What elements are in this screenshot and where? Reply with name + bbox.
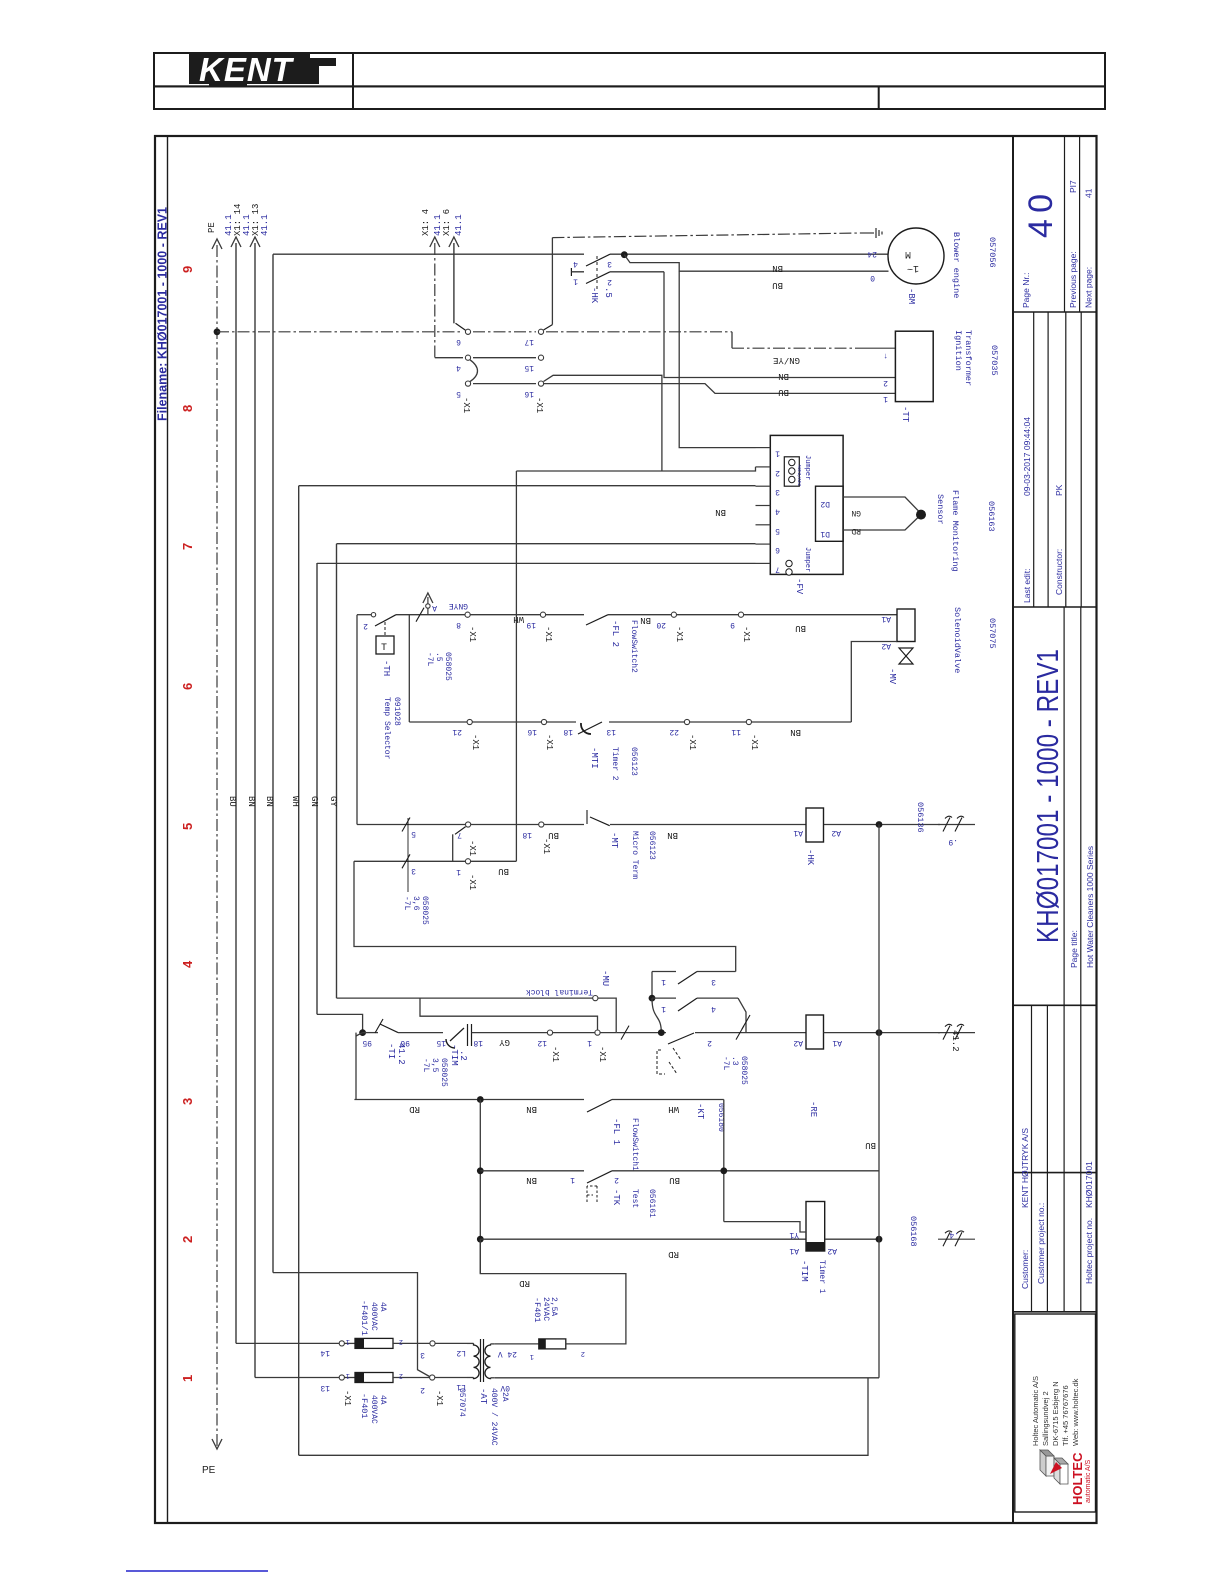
transformer -AT (467, 1342, 474, 1344)
svg-text:0: 0 (870, 273, 875, 282)
svg-text:4A: 4A (378, 1395, 387, 1405)
svg-text:057056: 057056 (987, 237, 997, 268)
svg-text:PE: PE (202, 1465, 216, 1476)
RE rung continues (616, 1032, 666, 1034)
sensor wires and node (843, 497, 918, 511)
BU vertical right (878, 825, 880, 1378)
svg-text:A: A (432, 603, 437, 612)
connector pin 17 (538, 329, 543, 334)
svg-text:D1: D1 (820, 529, 830, 538)
svg-text:1: 1 (661, 977, 666, 986)
svg-text:0V: 0V (500, 1383, 510, 1392)
svg-text:-X1: -X1 (467, 626, 477, 642)
svg-text:7: 7 (180, 543, 195, 550)
header frame (154, 53, 1105, 86)
terminal X1:14 (339, 1341, 344, 1346)
svg-text:-X1: -X1 (461, 397, 471, 413)
Holtec 3D icon (1040, 1450, 1068, 1484)
TH rung wire (357, 614, 372, 616)
WH rail (298, 486, 300, 1456)
svg-text:2: 2 (180, 1236, 195, 1243)
BN corner to fuse F401 (255, 1377, 339, 1379)
svg-text:3: 3 (711, 977, 716, 986)
svg-text:6: 6 (180, 683, 195, 690)
svg-text:1: 1 (570, 1175, 575, 1184)
title block (1012, 136, 1014, 1523)
svg-text:Page title:: Page title: (1069, 930, 1079, 968)
blower engine motor -BM (888, 228, 944, 284)
svg-text:BN: BN (640, 615, 651, 625)
svg-text:Test: Test (630, 1189, 639, 1208)
svg-text:4A: 4A (378, 1302, 387, 1312)
svg-text:9: 9 (180, 266, 195, 273)
svg-text:Previous page:: Previous page: (1068, 251, 1078, 308)
fuse -F401/1 (355, 1338, 393, 1348)
svg-text:M: M (905, 248, 911, 259)
right drop x=723.8 (723, 1100, 725, 1222)
svg-text:24V/240v: 24V/240v (797, 464, 803, 486)
svg-text:WH: WH (668, 1104, 679, 1114)
svg-text:1: 1 (775, 449, 780, 458)
svg-text:-X1: -X1 (550, 1046, 560, 1062)
svg-text:DK-6715 Esbjerg N: DK-6715 Esbjerg N (1051, 1381, 1060, 1446)
svg-text:BN: BN (526, 1175, 537, 1185)
svg-text:.4: .4 (949, 1230, 959, 1239)
svg-text:-F401/1: -F401/1 (359, 1300, 369, 1336)
timer contact -MTI (578, 722, 602, 734)
svg-text:4: 4 (711, 1004, 716, 1013)
svg-text:2: 2 (399, 1337, 403, 1345)
BU rail (235, 243, 237, 1343)
svg-text:-MT: -MT (609, 832, 619, 849)
svg-text:11: 11 (731, 727, 741, 736)
svg-text:KHØ017001 - 1000 - REV1: KHØ017001 - 1000 - REV1 (1030, 649, 1065, 943)
svg-text:056136: 056136 (915, 802, 925, 833)
svg-text:056123: 056123 (647, 831, 656, 860)
svg-text:3: 3 (420, 1350, 425, 1359)
HK 1-2 drop to TT pin 2 (BN) (664, 272, 895, 378)
svg-text:A1: A1 (832, 1038, 842, 1047)
svg-text:8: 8 (180, 405, 195, 412)
svg-text:-FL 1: -FL 1 (611, 1118, 621, 1145)
svg-text:Page Nr.:: Page Nr.: (1021, 273, 1031, 308)
connector pin 6 (465, 329, 470, 334)
svg-text:-BM: -BM (906, 288, 916, 304)
node PE junction (214, 328, 221, 335)
svg-text:-MV: -MV (887, 668, 897, 685)
main frame (155, 136, 1097, 1523)
svg-text:1: 1 (587, 1038, 592, 1047)
connector row pins 5-16 (473, 383, 536, 385)
svg-text:-MTI: -MTI (589, 747, 599, 769)
svg-text:-AT: -AT (478, 1388, 488, 1405)
BN rail (254, 243, 256, 1378)
terminal X1:9 (738, 612, 743, 617)
svg-text:057075: 057075 (987, 618, 997, 649)
svg-text:WH: WH (513, 614, 524, 624)
timer contact -TIM .2 (450, 1028, 464, 1041)
svg-text:-X1: -X1 (467, 840, 477, 856)
svg-text:Holtec project no.: Holtec project no. (1084, 1218, 1094, 1284)
svg-text:BU: BU (669, 1175, 680, 1185)
micro term -MT contact (586, 810, 588, 824)
svg-text:PK: PK (1054, 484, 1064, 496)
svg-text:-X1: -X1 (534, 397, 544, 413)
svg-text:-TH: -TH (381, 660, 391, 676)
svg-text:057074: 057074 (457, 1388, 466, 1417)
svg-text:GNYE: GNYE (449, 601, 468, 610)
svg-text:-FL 2: -FL 2 (610, 620, 620, 647)
svg-text:BN: BN (715, 507, 726, 517)
svg-text:BU: BU (498, 866, 509, 876)
svg-text:14: 14 (320, 1348, 330, 1357)
svg-text:24 V: 24 V (498, 1349, 517, 1358)
GN rail (316, 563, 318, 1014)
S-curve from node down to RE rung (652, 998, 661, 1032)
svg-text:5: 5 (456, 389, 461, 398)
riser to MV A2 (851, 642, 897, 723)
svg-text:2: 2 (581, 1349, 585, 1357)
svg-text:A2: A2 (793, 1038, 803, 1047)
wire rung y=254 from BN2 to blower 24 (273, 253, 584, 255)
PE distribution dash-dot y=331.8 with connector pins 6 / 17 (217, 331, 463, 333)
svg-text:2A: 2A (500, 1392, 509, 1402)
svg-text:41.2: 41.2 (396, 1043, 406, 1065)
svg-text:-X1: -X1 (467, 874, 477, 890)
svg-text:HOLTEC: HOLTEC (1070, 1452, 1085, 1505)
fuse -F401 (355, 1373, 393, 1383)
svg-text:A1: A1 (789, 1246, 799, 1255)
svg-text:1: 1 (456, 867, 461, 876)
svg-text:2: 2 (614, 1175, 619, 1184)
svg-text:BU: BU (865, 1140, 876, 1150)
svg-text:BU: BU (548, 830, 559, 840)
flow switch 2 contact (586, 615, 608, 625)
svg-text:5: 5 (411, 829, 416, 838)
svg-text:BN: BN (246, 796, 256, 807)
relay coil -RE (806, 1015, 824, 1049)
svg-text:RD: RD (519, 1278, 530, 1288)
jumper block top (784, 457, 799, 486)
svg-text:5: 5 (180, 823, 195, 830)
switch -HK contact 3-4 (586, 254, 610, 266)
svg-text:058025: 058025 (739, 1056, 748, 1085)
terminal X1:13 (339, 1375, 344, 1380)
svg-text:SolenoidValve: SolenoidValve (952, 607, 962, 673)
svg-text:Filename: KHØ017001 - 1000 - R: Filename: KHØ017001 - 1000 - REV1 (156, 207, 170, 421)
svg-text:-MU: -MU (600, 970, 610, 986)
svg-text:FlowSwitch1: FlowSwitch1 (630, 1118, 639, 1171)
svg-text:Web: www.holtec.dk: Web: www.holtec.dk (1071, 1378, 1080, 1446)
terminal X1:16 (541, 719, 546, 724)
svg-text:BN: BN (772, 263, 783, 273)
svg-text:PE: PE (207, 222, 217, 233)
svg-text:-X1: -X1 (749, 734, 759, 750)
svg-text:058025: 058025 (439, 1058, 448, 1087)
contact -TI 95/96 (363, 1032, 378, 1034)
svg-text:BU: BU (795, 623, 806, 633)
timer coil -TIM (806, 1202, 825, 1252)
svg-text:KENT HØJTRYK A/S: KENT HØJTRYK A/S (1020, 1128, 1030, 1208)
svg-text:X1: 4: X1: 4 (421, 209, 431, 236)
svg-text:PI7: PI7 (1068, 180, 1078, 193)
svg-text:-FV: -FV (794, 578, 804, 595)
svg-text:.5: .5 (434, 652, 443, 662)
svg-text:A1: A1 (881, 614, 891, 623)
svg-text:KHØ017001: KHØ017001 (1084, 1161, 1094, 1208)
svg-text:-X1: -X1 (470, 734, 480, 750)
svg-text:A1: A1 (793, 828, 803, 837)
svg-text:Customer:: Customer: (1020, 1250, 1030, 1289)
svg-text:BN: BN (778, 371, 789, 381)
svg-text:-7L: -7L (421, 1058, 430, 1073)
svg-text:-X1: -X1 (741, 626, 751, 642)
svg-text:20: 20 (656, 620, 666, 629)
svg-text:16: 16 (524, 389, 534, 398)
svg-text:-7L: -7L (721, 1056, 730, 1071)
terminal X1:3 (430, 1341, 435, 1346)
svg-text:058025: 058025 (420, 896, 429, 925)
svg-text:3,6: 3,6 (411, 896, 420, 911)
relay coil -HK (806, 808, 824, 842)
svg-text:-X1: -X1 (687, 734, 697, 750)
svg-text:T: T (381, 643, 387, 654)
svg-text:Ignition: Ignition (953, 330, 963, 371)
Y1 wire from TK rung (724, 1222, 806, 1232)
svg-text:KENT: KENT (199, 51, 295, 88)
svg-text:.3: .3 (730, 1056, 739, 1066)
svg-text:-7L: -7L (425, 652, 434, 667)
svg-text:-TT: -TT (900, 406, 910, 423)
svg-text:3: 3 (411, 866, 416, 875)
svg-text:2: 2 (707, 1038, 712, 1047)
svg-text:13: 13 (606, 727, 616, 736)
svg-text:1: 1 (883, 394, 888, 403)
svg-text:Jumper: Jumper (803, 455, 811, 480)
svg-text:4: 4 (180, 960, 195, 968)
contact 1-4 (649, 995, 656, 1002)
svg-text:091028: 091028 (392, 697, 401, 726)
svg-text:400VAC: 400VAC (369, 1395, 378, 1424)
svg-text:RD: RD (851, 526, 861, 535)
svg-text:056168: 056168 (908, 1216, 918, 1247)
svg-text:2: 2 (363, 621, 368, 630)
svg-text:-F401: -F401 (532, 1297, 542, 1323)
svg-text:Last edit:: Last edit: (1022, 569, 1032, 604)
svg-text:2: 2 (420, 1385, 425, 1394)
svg-text:16: 16 (527, 727, 537, 736)
wire to blower 0 (624, 255, 888, 272)
A GNVE stub with arrow (427, 597, 429, 615)
Holtec logo box (1015, 1314, 1096, 1512)
svg-text:-HK: -HK (589, 287, 599, 304)
svg-text:-X1: -X1 (597, 1046, 607, 1062)
terminal X1:21 (467, 719, 472, 724)
terminal X1:12 (547, 1030, 552, 1035)
svg-text:7: 7 (775, 564, 780, 573)
svg-text:1: 1 (346, 1337, 350, 1345)
svg-text:Customer project no.:: Customer project no.: (1036, 1203, 1046, 1284)
svg-text:22: 22 (669, 727, 679, 736)
svg-text:Y1: Y1 (789, 1230, 799, 1239)
svg-text:Tlf. +45 76767676: Tlf. +45 76767676 (1061, 1385, 1070, 1446)
svg-text:400VAC: 400VAC (369, 1302, 378, 1331)
svg-text:19: 19 (526, 620, 536, 629)
svg-text:8: 8 (456, 620, 461, 629)
terminal X1:11 (746, 719, 751, 724)
svg-text:RD: RD (409, 1104, 420, 1114)
KENT logo (189, 51, 336, 88)
svg-text:GY: GY (328, 796, 338, 807)
svg-text:13: 13 (320, 1383, 330, 1392)
ground pin at blower (860, 232, 874, 234)
terminal X1:1 (595, 1030, 600, 1035)
svg-text:-TIM: -TIM (799, 1260, 809, 1282)
svg-text:41: 41 (1084, 188, 1094, 198)
B path down and over to contact 3 (354, 861, 736, 971)
svg-text:L2: L2 (456, 1348, 466, 1357)
svg-text:1: 1 (346, 1371, 350, 1379)
riser from pin17 up to HK row (551, 238, 553, 325)
FV pin wires: pin2 from x516 line, pin3 WH, pin6 GY, pin7 GN (516, 467, 755, 471)
contact -KT (695, 1032, 806, 1034)
svg-text:Hot Water Cleaners 1000 Series: Hot Water Cleaners 1000 Series (1085, 846, 1095, 968)
svg-text:Transformer: Transformer (963, 330, 973, 386)
svg-text:1: 1 (530, 1352, 534, 1360)
terminal X1:19 (540, 612, 545, 617)
svg-text:-HK: -HK (805, 849, 815, 866)
wire pin16 to TT pin 2 (BN) (544, 375, 662, 471)
svg-text:2: 2 (399, 1371, 403, 1379)
24V wire + fuse -F401 24VAC (495, 1343, 539, 1345)
svg-text:18: 18 (563, 727, 573, 736)
svg-text:6: 6 (775, 545, 780, 554)
jumper curve pin4 to pin5 (470, 360, 478, 382)
svg-text:2: 2 (883, 378, 888, 387)
svg-text:FlowSwitch2: FlowSwitch2 (629, 620, 638, 673)
svg-text:1: 1 (180, 1375, 195, 1382)
svg-text:1: 1 (661, 1004, 666, 1013)
svg-text:7: 7 (457, 830, 462, 839)
svg-text:BU: BU (772, 280, 783, 290)
svg-text:Holtec Automatic A/S: Holtec Automatic A/S (1031, 1376, 1040, 1446)
svg-text:.5: .5 (603, 287, 613, 298)
svg-text:-X1: -X1 (544, 734, 554, 750)
svg-text:D2: D2 (820, 499, 830, 508)
svg-text:6: 6 (456, 337, 461, 346)
svg-text:↑: ↑ (883, 351, 888, 360)
terminal X1:7 with branch down to rung B (466, 822, 471, 827)
svg-text:056163: 056163 (986, 501, 996, 532)
svg-text:GN: GN (851, 508, 861, 517)
terminal X1:22 (684, 719, 689, 724)
terminal X1:2 (430, 1375, 435, 1380)
svg-text:BN: BN (264, 796, 274, 807)
flame monitoring unit -FV (770, 435, 843, 574)
svg-text:Next page:: Next page: (1084, 267, 1094, 308)
BN2 rail (272, 254, 274, 1272)
svg-text:GN/YE: GN/YE (773, 355, 800, 365)
svg-text:-KT: -KT (695, 1103, 705, 1120)
svg-text:057035: 057035 (989, 345, 999, 376)
connector row pins 4-15 (435, 357, 463, 359)
svg-text:17: 17 (524, 337, 534, 346)
svg-text:15: 15 (524, 363, 534, 372)
svg-text:056161: 056161 (647, 1189, 656, 1218)
svg-text:Sensor: Sensor (935, 494, 945, 525)
svg-text:15: 15 (436, 1038, 446, 1047)
svg-text:Blower engine: Blower engine (951, 232, 961, 298)
vertical feed x=357 from TH rung down to MT rung (356, 615, 358, 825)
jumper bottom circles (786, 560, 792, 566)
svg-text:1: 1 (573, 277, 578, 286)
svg-text:Temp Selector: Temp Selector (382, 697, 391, 760)
svg-text:Sallingsundvej 2: Sallingsundvej 2 (1041, 1391, 1050, 1446)
contact 1-3 (652, 971, 676, 973)
svg-text:-X1: -X1 (674, 626, 684, 642)
0V wire to BU vertical (495, 1377, 879, 1379)
svg-text:2: 2 (607, 277, 612, 286)
svg-text:41.2: 41.2 (950, 1030, 960, 1052)
svg-text:-X1: -X1 (434, 1390, 444, 1406)
svg-text:A2: A2 (881, 641, 891, 650)
svg-text:-TK: -TK (611, 1189, 621, 1206)
svg-text:A2: A2 (827, 1246, 837, 1255)
ignition transformer -TT (895, 331, 933, 401)
svg-text:Terminal block: Terminal block (526, 987, 593, 996)
svg-text:A2: A2 (831, 828, 841, 837)
PE rail (dash-dot) (216, 245, 218, 1447)
temp selector -TH (371, 613, 375, 617)
svg-text:-7L: -7L (402, 896, 411, 911)
svg-text:3,5: 3,5 (430, 1058, 439, 1073)
svg-text:RD: RD (668, 1249, 679, 1259)
svg-text:24VAC: 24VAC (541, 1297, 550, 1321)
svg-text:GN: GN (309, 796, 319, 807)
svg-text:-X1: -X1 (342, 1390, 352, 1406)
svg-text:400V / 24VAC: 400V / 24VAC (489, 1388, 498, 1446)
svg-text:.2: .2 (458, 1050, 468, 1061)
footer link line (126, 1570, 268, 1572)
svg-text:12: 12 (537, 1038, 547, 1047)
svg-text:BN: BN (526, 1104, 537, 1114)
terminal X1:18 (539, 822, 544, 827)
svg-text:5: 5 (775, 526, 780, 535)
GN/YE wire to ignition transformer (731, 332, 733, 348)
X1:1 feed from GY line (420, 998, 598, 1030)
svg-text:18: 18 (522, 830, 532, 839)
vertical RD feed x=480.3 (479, 1100, 481, 1274)
svg-text:9: 9 (730, 620, 735, 629)
svg-text:1~: 1~ (907, 262, 919, 273)
WH rail bottom return (299, 1378, 868, 1456)
svg-text:GY: GY (499, 1037, 510, 1047)
switch -HK contact 1-2 (570, 268, 572, 276)
off-page arrows / labels top-middle (X1:4 / X1:6) (434, 243, 436, 358)
svg-text:-TIM: -TIM (449, 1044, 459, 1066)
svg-text:Micro Term: Micro Term (630, 831, 639, 879)
svg-text:4: 4 (456, 363, 461, 372)
BN2 drop into X1:2 (273, 1273, 430, 1377)
svg-text:2: 2 (775, 468, 780, 477)
svg-text:BU: BU (778, 387, 789, 397)
svg-text:95: 95 (362, 1038, 372, 1047)
svg-text:Timer 1: Timer 1 (817, 1260, 826, 1294)
svg-text:056123: 056123 (629, 747, 638, 776)
svg-text:41.1: 41.1 (454, 214, 464, 236)
svg-text:automatic A/S: automatic A/S (1085, 1459, 1092, 1503)
svg-text:X1: 6: X1: 6 (442, 209, 452, 236)
